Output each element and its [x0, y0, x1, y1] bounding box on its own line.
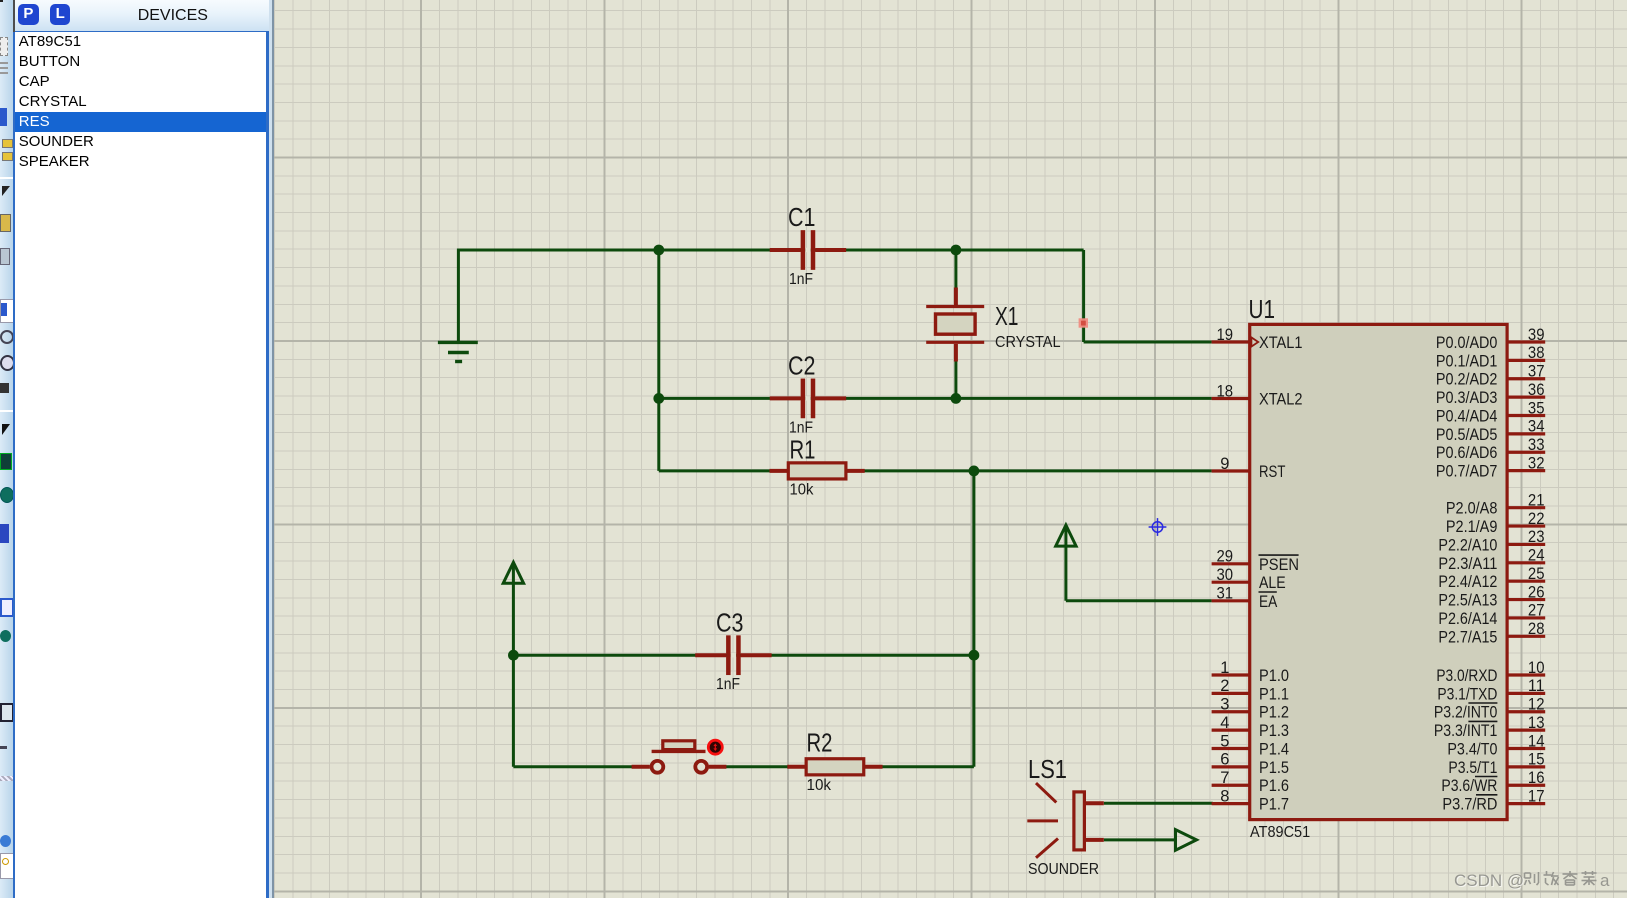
svg-text:23: 23 [1528, 528, 1545, 546]
svg-text:10k: 10k [807, 777, 832, 794]
svg-text:P0.7/AD7: P0.7/AD7 [1436, 463, 1498, 481]
svg-text:1: 1 [1220, 659, 1229, 677]
svg-text:3: 3 [1220, 696, 1229, 714]
svg-text:21: 21 [1528, 492, 1545, 510]
svg-text:P3.1/TXD: P3.1/TXD [1437, 685, 1497, 703]
svg-text:P2.2/A10: P2.2/A10 [1438, 536, 1497, 554]
svg-text:P1.6: P1.6 [1259, 777, 1289, 795]
svg-text:P3.6/WR: P3.6/WR [1441, 777, 1497, 795]
svg-text:6: 6 [1220, 751, 1229, 769]
svg-text:P2.5/A13: P2.5/A13 [1438, 592, 1497, 610]
svg-text:C3: C3 [716, 607, 744, 637]
svg-text:39: 39 [1528, 326, 1545, 344]
svg-text:1nF: 1nF [789, 271, 813, 288]
svg-text:P2.0/A8: P2.0/A8 [1446, 500, 1498, 518]
svg-text:P0.0/AD0: P0.0/AD0 [1436, 334, 1498, 352]
svg-text:10: 10 [1528, 659, 1545, 677]
svg-text:36: 36 [1528, 381, 1545, 399]
svg-text:SOUNDER: SOUNDER [1028, 861, 1099, 878]
svg-text:26: 26 [1528, 583, 1545, 601]
svg-text:P1.1: P1.1 [1259, 685, 1289, 703]
svg-text:R2: R2 [807, 728, 833, 758]
svg-text:24: 24 [1528, 547, 1545, 565]
svg-text:R1: R1 [790, 435, 816, 465]
svg-text:P3.7/RD: P3.7/RD [1442, 796, 1497, 814]
svg-text:C1: C1 [788, 202, 816, 232]
svg-text:5: 5 [1220, 732, 1229, 750]
svg-text:P3.2/INT0: P3.2/INT0 [1434, 704, 1498, 722]
svg-text:P0.3/AD3: P0.3/AD3 [1436, 389, 1498, 407]
svg-text:ALE: ALE [1259, 574, 1286, 592]
svg-text:P3.5/T1: P3.5/T1 [1448, 759, 1497, 777]
svg-text:XTAL1: XTAL1 [1259, 334, 1303, 352]
svg-text:P1.3: P1.3 [1259, 722, 1289, 740]
svg-text:11: 11 [1528, 677, 1545, 695]
svg-text:P3.0/RXD: P3.0/RXD [1436, 667, 1497, 685]
svg-text:4: 4 [1220, 714, 1229, 732]
svg-text:14: 14 [1528, 732, 1545, 750]
svg-text:P1.5: P1.5 [1259, 759, 1289, 777]
svg-text:U1: U1 [1249, 294, 1276, 324]
svg-text:7: 7 [1220, 769, 1229, 787]
svg-text:34: 34 [1528, 418, 1545, 436]
svg-text:32: 32 [1528, 454, 1545, 472]
svg-text:16: 16 [1528, 769, 1545, 787]
svg-text:XTAL2: XTAL2 [1259, 391, 1303, 409]
svg-text:P3.3/INT1: P3.3/INT1 [1434, 722, 1498, 740]
svg-text:29: 29 [1217, 548, 1234, 566]
svg-text:17: 17 [1528, 787, 1545, 805]
svg-text:a: a [1600, 871, 1610, 890]
svg-text:P1.7: P1.7 [1259, 796, 1289, 814]
svg-text:P2.3/A11: P2.3/A11 [1438, 555, 1497, 573]
svg-text:C2: C2 [788, 351, 816, 381]
svg-text:35: 35 [1528, 399, 1545, 417]
svg-text:37: 37 [1528, 363, 1545, 381]
svg-text:P1.4: P1.4 [1259, 740, 1289, 758]
svg-text:P3.4/T0: P3.4/T0 [1447, 740, 1497, 758]
svg-text:33: 33 [1528, 436, 1545, 454]
svg-text:P0.1/AD1: P0.1/AD1 [1436, 352, 1498, 370]
svg-text:19: 19 [1217, 326, 1234, 344]
svg-text:31: 31 [1217, 585, 1234, 603]
svg-text:LS1: LS1 [1028, 754, 1067, 784]
svg-text:CSDN @: CSDN @ [1454, 871, 1524, 890]
svg-text:X1: X1 [995, 301, 1019, 331]
svg-text:P0.4/AD4: P0.4/AD4 [1436, 407, 1498, 425]
svg-text:12: 12 [1528, 696, 1545, 714]
svg-text:27: 27 [1528, 602, 1545, 620]
svg-text:P2.4/A12: P2.4/A12 [1438, 573, 1497, 591]
svg-text:2: 2 [1220, 677, 1229, 695]
svg-text:P1.0: P1.0 [1259, 667, 1289, 685]
svg-text:9: 9 [1220, 455, 1229, 473]
svg-text:15: 15 [1528, 751, 1545, 769]
svg-text:30: 30 [1217, 566, 1234, 584]
svg-text:PSEN: PSEN [1259, 556, 1299, 574]
svg-text:RST: RST [1259, 463, 1285, 481]
svg-text:1nF: 1nF [716, 676, 740, 693]
svg-text:AT89C51: AT89C51 [1250, 824, 1310, 841]
svg-text:25: 25 [1528, 565, 1545, 583]
svg-text:P2.6/A14: P2.6/A14 [1438, 610, 1497, 628]
svg-text:38: 38 [1528, 344, 1545, 362]
svg-text:28: 28 [1528, 620, 1545, 638]
svg-text:CRYSTAL: CRYSTAL [995, 334, 1061, 351]
svg-text:P0.5/AD5: P0.5/AD5 [1436, 426, 1498, 444]
svg-text:P2.1/A9: P2.1/A9 [1446, 518, 1498, 536]
svg-text:P1.2: P1.2 [1259, 704, 1289, 722]
svg-text:EA: EA [1259, 593, 1277, 611]
svg-text:18: 18 [1217, 382, 1234, 400]
svg-text:13: 13 [1528, 714, 1545, 732]
svg-text:P0.6/AD6: P0.6/AD6 [1436, 444, 1498, 462]
svg-text:22: 22 [1528, 510, 1545, 528]
svg-text:P2.7/A15: P2.7/A15 [1438, 628, 1497, 646]
svg-text:P0.2/AD2: P0.2/AD2 [1436, 371, 1498, 389]
svg-text:10k: 10k [790, 482, 814, 499]
svg-text:8: 8 [1220, 787, 1229, 805]
